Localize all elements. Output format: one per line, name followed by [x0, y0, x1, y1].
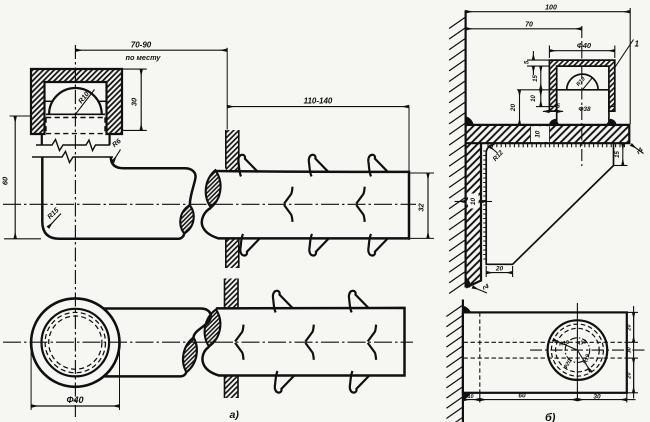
- dimension 70: [466, 21, 582, 29]
- svg-text:20: 20: [626, 324, 632, 331]
- part callout 1: [615, 40, 640, 68]
- wall face line (plan): [462, 300, 464, 422]
- svg-text:32: 32: [416, 203, 425, 212]
- svg-text:70: 70: [525, 21, 533, 28]
- horizontal centreline of elbow / upper hose: [3, 203, 416, 205]
- weld callout r4 at plate bottom: [473, 283, 491, 293]
- cap body: hatched block section: [31, 69, 122, 134]
- dimension F40: [31, 347, 119, 410]
- hidden plate edge (dashed): [479, 312, 481, 392]
- svg-text:60: 60: [1, 176, 10, 185]
- gusset plate outline: [486, 143, 613, 264]
- centreline of cup: [581, 26, 583, 166]
- thickness label 10 on shelf: [531, 126, 550, 142]
- dome of hose end: [567, 74, 598, 90]
- svg-text:110-140: 110-140: [304, 96, 333, 105]
- svg-text:10: 10: [626, 347, 632, 353]
- weld teeth under shelf: [488, 144, 624, 148]
- cap rim steps: [549, 105, 614, 107]
- end view outer circle: [31, 298, 119, 386]
- weld bead: plate bottom tip: [466, 278, 471, 288]
- bracket plan rectangle: [463, 312, 627, 392]
- svg-text:30: 30: [593, 394, 601, 401]
- barbed hose outline (side view): [202, 171, 409, 238]
- hidden hose end inside cap (dashed): [46, 118, 105, 134]
- radius callouts in hole: [553, 339, 592, 371]
- svg-text:10: 10: [470, 198, 477, 206]
- dimension 30 (cap height): [122, 69, 147, 130]
- dimension 5 (cap top): [525, 51, 550, 75]
- svg-text:15: 15: [615, 151, 621, 158]
- svg-text:Ф40: Ф40: [66, 395, 83, 405]
- svg-text:1: 1: [635, 40, 640, 49]
- svg-text:10: 10: [531, 95, 537, 102]
- svg-text:Ф38: Ф38: [578, 106, 591, 113]
- centreline chevron barbs: [284, 187, 365, 222]
- vertical wall plate (hatched section): [466, 143, 481, 287]
- radius callout R10 (dome): [576, 76, 593, 89]
- dimension 5 (cap wall thickness): [543, 104, 563, 111]
- weld bead bottom (plan): [463, 393, 471, 400]
- cup cap (hatched section): [549, 60, 614, 111]
- barbs on top edge: [238, 155, 387, 177]
- svg-text:60: 60: [518, 393, 526, 400]
- svg-text:Ф40: Ф40: [577, 41, 592, 50]
- barbs on top edge (bottom hose): [273, 291, 368, 313]
- svg-text:30: 30: [130, 97, 139, 106]
- centreline chevron barbs (bottom hose): [235, 325, 376, 360]
- svg-text:100: 100: [545, 4, 557, 11]
- bottom barbed hose outline: [202, 308, 404, 376]
- wall section band (lower part, bottom hose): [225, 376, 239, 399]
- vertical centreline of cap and end view: [74, 45, 76, 417]
- wall hatching strokes: [449, 17, 466, 294]
- wall face line (section): [465, 10, 467, 287]
- shelf plate (hatched section): [466, 125, 630, 143]
- fillet callout R6: [111, 138, 122, 162]
- break lens at elbow outlet: [180, 205, 194, 234]
- svg-text:20: 20: [510, 104, 517, 113]
- end view inner circle: [42, 309, 110, 377]
- dimension 100: [466, 4, 631, 124]
- dimensions 15 and 10 (left stack): [517, 66, 557, 107]
- radius callout R12 of gusset corner: [489, 146, 505, 163]
- dimension 70-90 po mestu: [75, 41, 227, 130]
- svg-text:10: 10: [535, 130, 542, 138]
- svg-text:20: 20: [495, 266, 504, 273]
- elbow hose outline: [41, 134, 43, 145]
- wall section band (lower part, top hose): [226, 239, 239, 268]
- horizontal centreline of lower hose: [3, 341, 413, 343]
- dimension 110-140: [227, 96, 409, 106]
- dimension 15 (gusset right edge): [614, 143, 628, 165]
- dimension 20 (gusset bottom): [486, 266, 512, 277]
- radius callout R10 of dome: [75, 90, 94, 115]
- dimension 20 (to shelf): [510, 90, 520, 125]
- svg-text:70-90: 70-90: [131, 41, 152, 50]
- svg-text:15: 15: [533, 75, 539, 82]
- wall hatching strokes (plan): [446, 305, 463, 422]
- hidden hose edges (dashed): [464, 341, 627, 343]
- break lens at lower hose outlet: [183, 337, 197, 372]
- right dimension chain 20/10/20: [626, 306, 638, 399]
- svg-text:по месту: по месту: [126, 53, 162, 62]
- fillet callout R15: [47, 207, 61, 228]
- weld bead: shelf to wall: [466, 116, 474, 125]
- svg-text:20: 20: [626, 372, 632, 379]
- wall section band (upper part, top hose): [226, 130, 239, 172]
- dimension 32 (hose dia): [409, 107, 434, 240]
- wall section band (upper part, bottom hose): [225, 279, 239, 308]
- svg-text:б): б): [545, 412, 556, 422]
- hose from end view to break: [103, 309, 210, 338]
- break lens at bottom hose inlet: [205, 310, 221, 347]
- weld callout r4 at shelf end: [631, 145, 645, 156]
- hole circles: [548, 320, 608, 380]
- dimension F40 (cap): [549, 41, 614, 58]
- svg-text:а): а): [230, 409, 240, 421]
- dimension 10 (plate width): [455, 194, 493, 209]
- barbs on bottom edge (bottom hose): [275, 371, 369, 393]
- bottom dimension chain 10/60/30: [463, 393, 636, 403]
- weld teeth on gusset left edge: [483, 151, 487, 259]
- weld feet of hose end on shelf: [549, 119, 560, 125]
- weld bead top (plan): [463, 306, 471, 313]
- barbs on bottom edge: [240, 234, 387, 256]
- dimension 60 (elbow height): [1, 116, 42, 239]
- hidden circles (dashed): [45, 312, 105, 372]
- svg-text:10: 10: [467, 394, 473, 400]
- break lines between cap and elbow hose: [36, 140, 110, 151]
- break lens at barbed hose inlet (upper): [206, 170, 221, 207]
- spherical dome recess in cap: [45, 88, 107, 114]
- hose end under cap: [557, 90, 609, 125]
- centrelines of hole: [530, 349, 645, 351]
